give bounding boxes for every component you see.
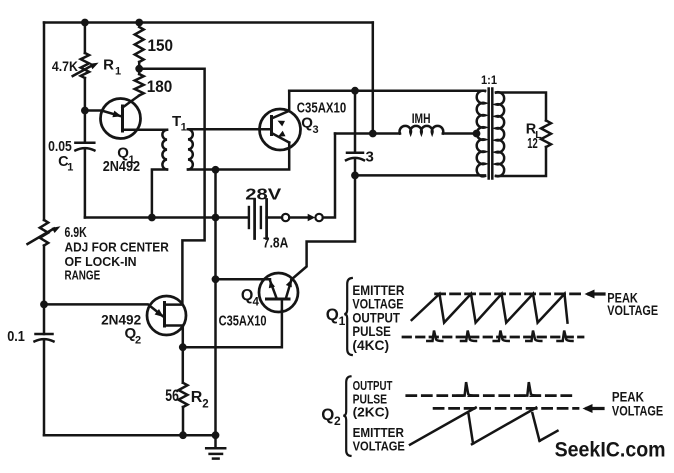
- Q1 output pulse spike at 564.7: [558, 331, 573, 342]
- Q3 collector lead (bottom): [272, 133, 290, 143]
- svg-text:(4KC): (4KC): [352, 337, 389, 353]
- arrow of variable resistor 6.9K: [28, 229, 55, 245]
- svg-text:(2KC): (2KC): [353, 406, 390, 420]
- Q1 emitter-voltage sawtooth: [412, 294, 568, 323]
- wire: Q3 emitter to output transformer top: [289, 89, 485, 92]
- svg-text:PULSE: PULSE: [353, 393, 388, 407]
- transistor Q4 C35AX10 circle: [259, 273, 298, 312]
- arrow of variable resistor R1: [73, 66, 92, 77]
- node dot: 150/180 junction: [135, 65, 143, 73]
- Q1 output pulse spike at 434.5: [427, 331, 442, 342]
- transistor Q4 base bar: [267, 298, 290, 301]
- svg-text:12: 12: [527, 136, 538, 152]
- resistor 6.9K (variable): [40, 220, 48, 246]
- node dot: top rail / R1: [81, 19, 89, 27]
- svg-text:0.05: 0.05: [48, 139, 72, 155]
- transistor Q3 base bar: [270, 117, 273, 135]
- wire: left rail mid segment (pot to 0.1 cap): [43, 246, 46, 335]
- resistor RL 12: [541, 121, 551, 148]
- switch arrow: [308, 214, 316, 221]
- svg-text:VOLTAGE: VOLTAGE: [353, 440, 405, 454]
- svg-text:1: 1: [339, 314, 346, 328]
- Q1 peak voltage dashed line: [436, 293, 584, 296]
- wire: Q4 left lead to x215 vertical: [216, 278, 271, 281]
- Q1 output pulse dashed baseline: [403, 336, 583, 339]
- svg-text:2: 2: [334, 414, 341, 428]
- Q2 peak voltage dashed line: [434, 407, 578, 410]
- resistor 150: [135, 27, 144, 62]
- Q1 output pulse spike at 468.2: [461, 331, 476, 342]
- svg-text:PEAK: PEAK: [612, 389, 644, 404]
- svg-text:IMH: IMH: [412, 110, 431, 126]
- Q4 right lead: [286, 280, 292, 299]
- wire: switch to battery-plus riser: [323, 134, 335, 218]
- svg-text:VOLTAGE: VOLTAGE: [607, 303, 658, 318]
- wire: battery to switch contact 1: [267, 216, 282, 219]
- wire: secondary top to RL: [496, 93, 546, 121]
- Q2 emitter-voltage sawtooth: [410, 408, 476, 445]
- transformer 1:1 secondary winding: [496, 92, 504, 176]
- svg-text:ADJ FOR CENTER: ADJ FOR CENTER: [65, 239, 170, 254]
- Q2 emitter arrowhead: [155, 309, 164, 317]
- svg-text:0.1: 0.1: [7, 329, 25, 345]
- wire: R1 bottom lead: [84, 78, 87, 111]
- brace for Q2 waveform labels: [343, 376, 350, 456]
- node dot: Q4 left lead junction: [212, 275, 220, 283]
- transformer 1:1 primary winding: [477, 91, 485, 177]
- Q2 output pulse spike at 466.6: [458, 382, 477, 396]
- transistor Q1 2N492 circle: [101, 99, 141, 139]
- Q1 output pulse spike at 500.9: [494, 331, 509, 342]
- svg-text:Q: Q: [321, 405, 334, 424]
- node dot: top-rail drop / 1MH node: [369, 130, 377, 138]
- svg-text:150: 150: [148, 37, 174, 55]
- svg-text:2: 2: [202, 399, 208, 411]
- transformer 1:1 core lines: [487, 89, 490, 179]
- Q1 output pulse spike at 533.5: [526, 331, 541, 342]
- wire: 150-180 junction run to Q2 base-two (right, down, left, down): [139, 69, 204, 305]
- switch contact circle 1: [282, 214, 289, 221]
- node dot: ground rail junction: [212, 431, 220, 439]
- Q2 peak voltage arrow: [587, 407, 603, 410]
- node dot: R2 on ground rail: [179, 431, 187, 439]
- wire: Q1 base-one lead to T1 primary top: [123, 128, 168, 131]
- wire: RL bottom back to secondary: [496, 147, 546, 176]
- node dot: Q2/R2/Q4 node: [179, 343, 187, 351]
- svg-text:SeekIC.com: SeekIC.com: [555, 439, 666, 462]
- node dot: T1 primary bottom on battery rail: [148, 214, 156, 222]
- brace for Q1 waveform labels: [344, 278, 352, 355]
- Q4 left arrowhead: [269, 281, 275, 289]
- Q4 right arrowhead: [286, 280, 292, 288]
- transistor Q2 2N492 circle: [147, 296, 186, 335]
- Q2 output pulse dashed baseline: [407, 394, 575, 397]
- Q1 emitter arrowhead: [112, 111, 121, 118]
- transformer T1 primary winding: [162, 130, 167, 170]
- node dot: cap3 bottom junction: [351, 172, 359, 180]
- wire: cap3 bottom to output transformer bottom: [355, 174, 485, 177]
- wire: R1 top lead: [84, 23, 87, 54]
- wire: vertical net from T1 secondary bottom to ground rail: [214, 170, 217, 435]
- svg-text:28V: 28V: [245, 187, 281, 204]
- wire: cap 3 upper lead: [354, 91, 357, 153]
- svg-text:1: 1: [67, 161, 73, 173]
- svg-text:R: R: [103, 56, 114, 73]
- node dot: x215 vertical on battery rail: [212, 214, 220, 222]
- Q3 emitter lead (top): [272, 91, 290, 119]
- svg-text:180: 180: [147, 78, 173, 96]
- wire: 180 bottom diagonal to Q1 base bar: [123, 96, 140, 108]
- svg-text:C35AX10: C35AX10: [219, 314, 267, 330]
- Q4 left lead: [270, 281, 277, 299]
- wire: top supply rail: [44, 21, 373, 24]
- Q3 collector arrowhead: [278, 131, 286, 137]
- node dot: T1 secondary bottom junction: [212, 166, 220, 174]
- wire: T1 secondary bottom lead: [188, 168, 216, 171]
- svg-text:VOLTAGE: VOLTAGE: [612, 404, 663, 419]
- wire: between switch contacts: [289, 216, 308, 219]
- node dot: top rail / 150: [135, 19, 143, 27]
- capacitor C1 0.05 plates: [75, 142, 94, 145]
- svg-text:3: 3: [366, 149, 374, 166]
- svg-text:7.8A: 7.8A: [263, 235, 289, 251]
- switch contact circle 2: [315, 214, 322, 221]
- wire: 150 to 180 link: [138, 62, 141, 74]
- node dot: left rail / Q2 emitter: [40, 301, 48, 309]
- svg-text:RANGE: RANGE: [65, 267, 101, 282]
- wire: Q4 collector step to cap3 node: [292, 175, 356, 279]
- node dot: R1/C1/Q1 emitter junction: [81, 107, 89, 115]
- svg-text:3: 3: [313, 124, 319, 136]
- svg-text:4.7K: 4.7K: [52, 59, 78, 74]
- svg-text:Q: Q: [301, 114, 313, 131]
- svg-text:R: R: [191, 389, 203, 406]
- resistor R1 4.7K (variable): [81, 53, 89, 78]
- svg-text:1: 1: [115, 66, 121, 78]
- Q4 emitter stub inside circle: [281, 299, 284, 311]
- wire: T1 primary bottom lead down to battery rail: [152, 170, 167, 218]
- Q3 emitter arrowhead: [278, 121, 286, 127]
- wire: cap 3 lower lead: [354, 159, 357, 175]
- wire: top rail right drop to 1MH node: [372, 23, 375, 134]
- wire: left rail upper segment: [43, 23, 46, 221]
- Q2 output pulse spike at 529.3: [520, 382, 539, 396]
- wire: bottom ground rail: [44, 434, 216, 437]
- svg-text:1: 1: [181, 122, 187, 134]
- transformer T1 secondary winding: [188, 129, 193, 169]
- capacitor 0.1 plates: [36, 333, 53, 336]
- wire: Q2 base-one lead down to R2: [165, 326, 183, 383]
- wire: Q2 emitter lead from left rail: [44, 304, 163, 316]
- Q1 peak voltage arrow: [589, 292, 604, 295]
- wire: Q4 emitter down and left to Q2/R2 node: [183, 311, 282, 348]
- wire: C1 bottom lead to battery rail: [84, 150, 87, 218]
- transistor Q2 base bar: [163, 303, 166, 327]
- wire: battery rail (bottom of T1 area): [85, 216, 247, 219]
- transistor Q3 C35AX10 circle: [260, 109, 301, 150]
- transistor Q1 base bar: [121, 106, 124, 131]
- resistor 180: [135, 74, 144, 96]
- capacitor 3 plates: [347, 152, 363, 155]
- wire: C1 top lead: [84, 111, 87, 143]
- svg-text:2: 2: [135, 335, 141, 347]
- svg-text:1:1: 1:1: [481, 75, 498, 87]
- wire: R2 bottom lead: [182, 407, 185, 435]
- node dot: cap3 top junction: [351, 87, 359, 95]
- resistor R2 56: [179, 383, 188, 407]
- wire: battery plus riser and 1MH feed: [335, 132, 400, 135]
- node dot: centre tap: [473, 130, 481, 138]
- wire: secondary bottom to Q3 collector drop: [216, 143, 290, 170]
- svg-text:EMITTER: EMITTER: [353, 426, 404, 440]
- svg-text:56: 56: [165, 387, 179, 405]
- ground symbol: [214, 435, 217, 447]
- wire: left rail lower segment below 0.1 cap: [43, 340, 46, 436]
- wire: T1 secondary top to Q3 base: [188, 128, 272, 131]
- svg-text:4: 4: [253, 296, 260, 308]
- wire: Q1 emitter lead from R1/C1 node: [85, 111, 120, 117]
- battery 28V plates: [248, 207, 250, 228]
- svg-text:2N492: 2N492: [103, 159, 140, 175]
- inductor 1MH: [400, 126, 444, 134]
- wire: 1MH to transformer centre tap: [443, 132, 477, 135]
- svg-text:OUTPUT: OUTPUT: [353, 379, 393, 393]
- svg-text:Q: Q: [326, 305, 339, 324]
- svg-text:Q: Q: [241, 287, 253, 304]
